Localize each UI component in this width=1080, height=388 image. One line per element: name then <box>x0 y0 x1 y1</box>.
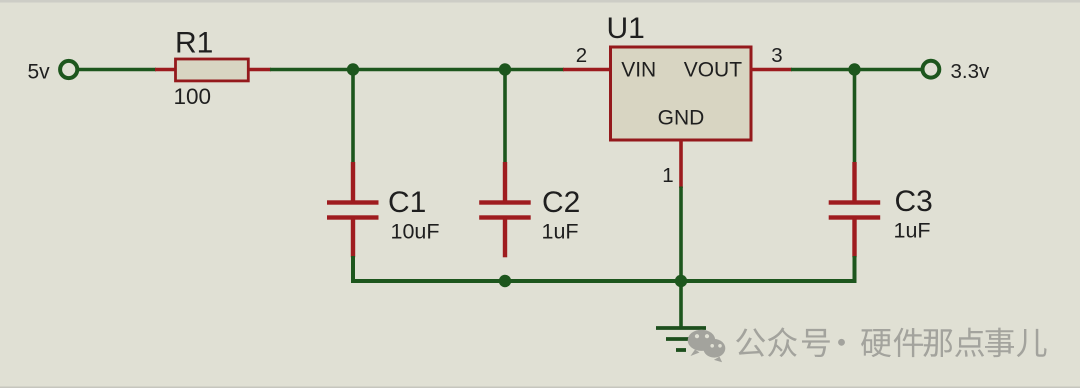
svg-text:1uF: 1uF <box>894 219 931 243</box>
svg-text:C2: C2 <box>542 186 580 219</box>
svg-text:C1: C1 <box>388 186 426 219</box>
watermark text <box>736 327 1047 357</box>
terminal 3.3v <box>923 61 940 78</box>
svg-text:3.3v: 3.3v <box>951 60 990 83</box>
regulator U1 body <box>611 47 752 140</box>
junction C2 top <box>499 63 511 75</box>
junction C3 top <box>848 63 860 75</box>
svg-text:VIN: VIN <box>621 59 656 82</box>
svg-text:1uF: 1uF <box>542 220 579 244</box>
svg-text:2: 2 <box>576 44 587 67</box>
svg-text:GND: GND <box>658 107 705 130</box>
capacitor C1 <box>327 162 379 257</box>
wire C1 top lead <box>351 68 355 164</box>
junction ground rail <box>675 275 687 287</box>
U1 pin 3 stub <box>750 68 792 72</box>
svg-text:3: 3 <box>771 44 782 67</box>
wire C3 top lead <box>853 68 857 164</box>
capacitor C2 <box>479 162 531 257</box>
junction C1 top <box>347 63 359 75</box>
ground <box>656 328 706 350</box>
wire U1 pin 3 to 3.3v terminal <box>791 68 922 72</box>
junction C2 bottom <box>499 275 511 287</box>
U1 pin 2 stub <box>563 68 612 72</box>
U1 pin 1 stub <box>679 140 683 188</box>
svg-text:C3: C3 <box>895 185 933 218</box>
watermark wechat icon <box>688 330 726 363</box>
wire 5v terminal to R1 <box>79 68 156 72</box>
wire U1 pin 1 to ground rail <box>679 187 683 282</box>
svg-text:U1: U1 <box>607 12 645 45</box>
wire ground stem <box>679 281 683 329</box>
svg-text:100: 100 <box>174 84 212 109</box>
wire C2 top lead <box>503 68 507 164</box>
svg-text:10uF: 10uF <box>391 220 440 244</box>
svg-text:R1: R1 <box>175 27 213 60</box>
capacitor C3 <box>829 162 881 257</box>
svg-text:1: 1 <box>662 164 673 187</box>
svg-text:VOUT: VOUT <box>684 59 743 82</box>
terminal 5v <box>60 61 77 78</box>
svg-text:5v: 5v <box>28 61 51 84</box>
wire bottom ground rail <box>353 256 855 281</box>
wire R1 to U1 pin 2 <box>270 68 564 72</box>
resistor R1 <box>155 59 271 81</box>
